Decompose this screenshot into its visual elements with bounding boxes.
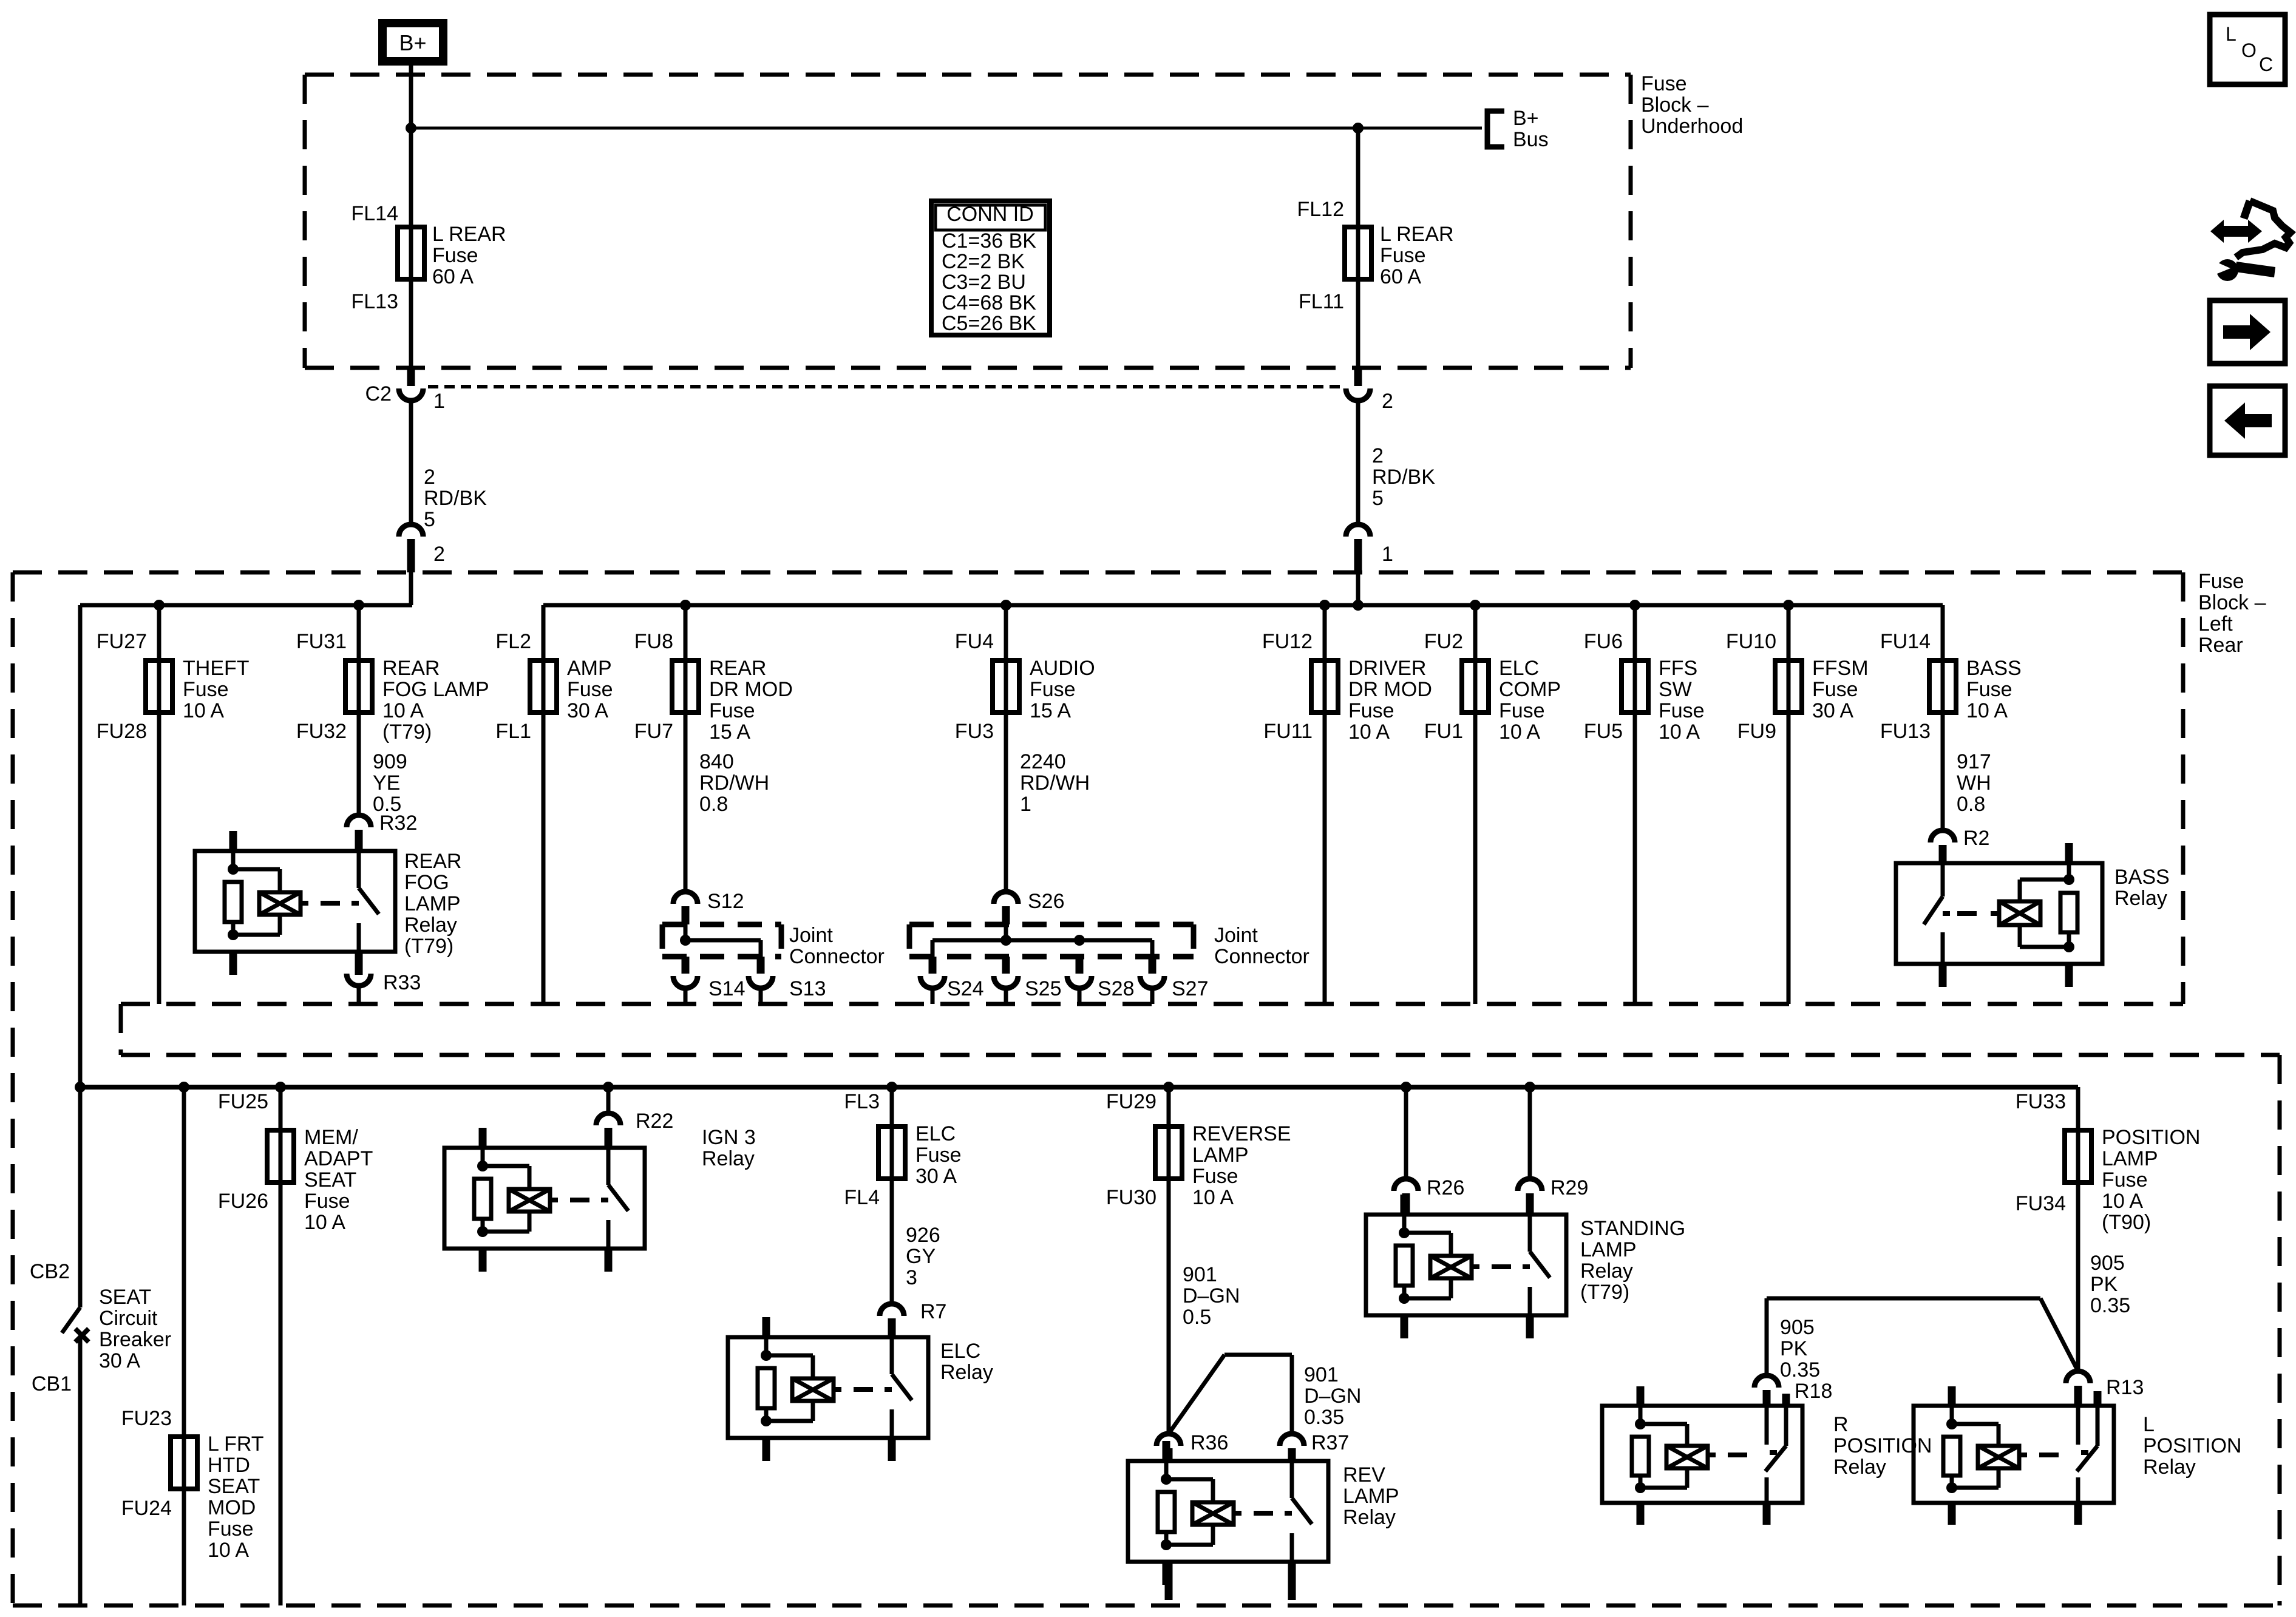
svg-text:FU13: FU13 [1880, 720, 1931, 743]
fuse FL2/FL1 AMP 30A [542, 605, 546, 1004]
svg-text:Connector: Connector [1214, 945, 1309, 968]
svg-text:Fuse: Fuse [183, 678, 229, 701]
svg-text:Relay: Relay [2114, 887, 2167, 910]
svg-text:Bus: Bus [1513, 128, 1549, 151]
svg-text:R13: R13 [2106, 1376, 2144, 1399]
svg-text:30 A: 30 A [1812, 699, 1853, 722]
wire to R29 [1528, 1087, 1532, 1179]
splice S27 [1149, 957, 1156, 974]
junction at x=1002 [603, 1082, 614, 1093]
fuse FL12/FL11 L REAR 60A [1356, 128, 1360, 368]
junction at x=2182 [1319, 600, 1330, 611]
joint connector box 1 [662, 922, 781, 927]
svg-text:POSITION: POSITION [2102, 1126, 2200, 1149]
svg-text:0.35: 0.35 [1304, 1406, 1344, 1429]
svg-text:B+: B+ [399, 30, 426, 55]
svg-text:S28: S28 [1098, 977, 1135, 1000]
svg-text:L: L [2226, 23, 2237, 45]
fuse FU4/FU3 AUDIO 15A [1004, 605, 1008, 892]
svg-text:10 A: 10 A [382, 699, 424, 722]
connector R29 [1518, 1179, 1542, 1191]
svg-text:C4=68 BK: C4=68 BK [942, 291, 1036, 314]
svg-text:Breaker: Breaker [99, 1328, 171, 1351]
svg-text:10 A: 10 A [1966, 699, 2008, 722]
svg-text:R36: R36 [1190, 1431, 1228, 1454]
svg-text:Fuse: Fuse [1641, 72, 1687, 95]
relay ELC Relay [728, 1317, 928, 1461]
svg-text:Relay: Relay [1833, 1456, 1886, 1479]
svg-text:RD/WH: RD/WH [1020, 771, 1090, 795]
svg-text:30 A: 30 A [915, 1165, 957, 1188]
svg-text:D–GN: D–GN [1304, 1385, 1361, 1408]
svg-text:10 A: 10 A [1192, 1186, 1234, 1209]
svg-text:10 A: 10 A [1348, 720, 1390, 744]
svg-text:SEAT: SEAT [304, 1168, 356, 1192]
svg-text:ADAPT: ADAPT [304, 1147, 373, 1170]
fuse FU8/FU7 REAR DR MOD 15A [684, 605, 688, 892]
svg-text:DR MOD: DR MOD [709, 678, 793, 701]
svg-text:FU23: FU23 [121, 1407, 172, 1430]
svg-text:Connector: Connector [789, 945, 885, 968]
svg-text:(T90): (T90) [2102, 1211, 2151, 1234]
svg-text:2240: 2240 [1020, 750, 1066, 773]
svg-text:FL12: FL12 [1297, 198, 1345, 221]
svg-text:ELC: ELC [940, 1340, 980, 1363]
bottom sub-box dashed border [121, 1053, 2280, 1057]
svg-text:FU3: FU3 [955, 720, 994, 743]
svg-text:5: 5 [424, 508, 435, 531]
connector R36 [1156, 1434, 1181, 1446]
svg-text:1: 1 [433, 390, 445, 413]
svg-text:10 A: 10 A [304, 1211, 345, 1234]
svg-text:(T79): (T79) [404, 935, 453, 958]
svg-text:10 A: 10 A [1659, 720, 1700, 744]
svg-text:FU28: FU28 [97, 720, 147, 743]
feed column to lower box [78, 605, 83, 1087]
junction at x=462 [275, 1082, 286, 1093]
svg-text:FL2: FL2 [495, 630, 531, 653]
svg-text:C2: C2 [365, 382, 392, 405]
svg-text:RD/WH: RD/WH [699, 771, 769, 795]
svg-text:FU10: FU10 [1726, 630, 1776, 653]
circuit breaker CB2/CB1 SEAT 30A [78, 1087, 83, 1307]
connector R26 [1394, 1179, 1418, 1191]
svg-text:IGN 3: IGN 3 [702, 1126, 756, 1149]
fuse FU14/FU13 BASS 10A [1941, 605, 1945, 830]
connector C2 pin 1 (right lower) [1346, 524, 1370, 537]
svg-text:FU11: FU11 [1263, 720, 1313, 743]
svg-text:Fuse: Fuse [2102, 1168, 2148, 1192]
svg-text:0.5: 0.5 [1183, 1306, 1211, 1329]
fuse FU27/FU28 THEFT 10A [157, 605, 161, 1004]
svg-text:Fuse: Fuse [1499, 699, 1545, 722]
svg-text:Block –: Block – [2198, 591, 2266, 614]
svg-text:CB2: CB2 [30, 1260, 70, 1283]
relay L POSITION Relay [1914, 1386, 2114, 1525]
svg-text:FU34: FU34 [2016, 1192, 2066, 1215]
svg-text:0.35: 0.35 [2090, 1294, 2130, 1317]
relay REV LAMP Relay [1128, 1441, 1328, 1585]
wire 2 RD/BK 5 (left) [409, 401, 413, 524]
fuse FU33/FU34 POSITION LAMP 10A [2076, 1087, 2080, 1371]
svg-text:Circuit: Circuit [99, 1307, 158, 1330]
wire B+ to FL14 [409, 66, 413, 368]
svg-text:Fuse: Fuse [1030, 678, 1076, 701]
svg-text:R32: R32 [379, 812, 417, 835]
wire to R26 [1404, 1087, 1408, 1179]
svg-text:Rear: Rear [2198, 634, 2243, 657]
svg-text:REAR: REAR [382, 657, 440, 680]
svg-text:L REAR: L REAR [432, 223, 506, 246]
diagnostic pointer icon [2210, 220, 2262, 243]
junction at x=303 [178, 1082, 189, 1093]
svg-text:C2=2 BK: C2=2 BK [942, 250, 1025, 273]
svg-text:Fuse: Fuse [1812, 678, 1858, 701]
bus wire left segment [80, 603, 412, 608]
svg-text:RD/BK: RD/BK [424, 487, 487, 510]
svg-text:SW: SW [1659, 678, 1692, 701]
svg-text:FU27: FU27 [97, 630, 147, 653]
wire 2 RD/BK 5 (right) [1356, 401, 1360, 524]
wire 905 PK 0.35 branch to R18 [1767, 1297, 2040, 1301]
svg-text:C1=36 BK: C1=36 BK [942, 229, 1036, 253]
svg-text:R: R [1833, 1413, 1849, 1436]
svg-text:REV: REV [1343, 1463, 1385, 1486]
svg-text:PK: PK [2090, 1273, 2118, 1296]
relay REAR FOG LAMP Relay [195, 831, 395, 975]
splice S14 [682, 957, 690, 974]
svg-text:Fuse: Fuse [1966, 678, 2012, 701]
svg-text:Relay: Relay [940, 1361, 993, 1384]
svg-text:REVERSE: REVERSE [1192, 1122, 1291, 1145]
svg-text:Joint: Joint [1214, 924, 1258, 947]
wire to R22 [606, 1087, 611, 1113]
junction at x=2520 [1524, 1082, 1535, 1093]
svg-text:C3=2 BU: C3=2 BU [942, 271, 1026, 294]
connector R13 [2066, 1371, 2090, 1383]
svg-text:60 A: 60 A [1380, 265, 1421, 288]
svg-text:S24: S24 [947, 977, 984, 1000]
junction at x=1925 [1163, 1082, 1174, 1093]
svg-text:ELC: ELC [915, 1122, 956, 1145]
svg-text:FL14: FL14 [352, 202, 399, 225]
svg-text:FU33: FU33 [2016, 1090, 2066, 1113]
fuse FL3/FL4 ELC 30A [890, 1087, 894, 1304]
svg-text:GY: GY [906, 1245, 936, 1268]
svg-text:Relay: Relay [1580, 1259, 1633, 1283]
fuse FU10/FU9 FFSM 30A [1787, 605, 1791, 1004]
svg-text:Fuse: Fuse [2198, 570, 2244, 593]
dotted connector line [428, 385, 1342, 388]
junction at x=1129 [680, 600, 691, 611]
junction at x=2237 [1353, 600, 1364, 611]
connector C2 pin 2 (left lower) [399, 524, 423, 537]
svg-text:STANDING: STANDING [1580, 1217, 1685, 1240]
splice S24 [929, 957, 937, 974]
svg-text:Fuse: Fuse [208, 1517, 254, 1541]
svg-text:901: 901 [1183, 1263, 1217, 1286]
svg-text:905: 905 [1780, 1316, 1815, 1339]
svg-text:Fuse: Fuse [1659, 699, 1705, 722]
joint connector bus 1 [685, 938, 761, 943]
svg-text:Joint: Joint [789, 924, 833, 947]
svg-text:MOD: MOD [208, 1496, 256, 1519]
svg-text:C5=26 BK: C5=26 BK [942, 312, 1036, 335]
connector R7 [880, 1304, 904, 1316]
B+ Bus terminal bracket [1487, 111, 1504, 147]
svg-text:FU32: FU32 [296, 720, 347, 743]
svg-text:YE: YE [373, 771, 400, 795]
svg-text:S26: S26 [1028, 890, 1065, 913]
svg-text:Fuse: Fuse [709, 699, 755, 722]
connector C2 pin 2 (right) [1354, 368, 1362, 386]
svg-text:Relay: Relay [2143, 1456, 2196, 1479]
svg-text:FU4: FU4 [955, 630, 994, 653]
svg-text:926: 926 [906, 1224, 940, 1247]
svg-text:S25: S25 [1025, 977, 1062, 1000]
svg-text:FU7: FU7 [634, 720, 673, 743]
svg-text:Relay: Relay [404, 914, 457, 937]
svg-text:1: 1 [1020, 793, 1031, 816]
svg-text:15 A: 15 A [709, 720, 750, 744]
svg-text:Left: Left [2198, 612, 2233, 636]
svg-text:THEFT: THEFT [183, 657, 250, 680]
svg-text:S13: S13 [789, 977, 826, 1000]
svg-text:2: 2 [1372, 444, 1384, 467]
splice S25 [1002, 957, 1010, 974]
arrow left icon box [2210, 386, 2285, 455]
LOC reference box icon [2210, 15, 2285, 84]
svg-text:10 A: 10 A [208, 1539, 249, 1562]
svg-text:FL13: FL13 [352, 290, 399, 313]
junction at x=2316 [1401, 1082, 1411, 1093]
svg-text:POSITION: POSITION [2143, 1434, 2241, 1457]
svg-text:10 A: 10 A [2102, 1190, 2143, 1213]
svg-text:3: 3 [906, 1266, 917, 1289]
svg-text:CB1: CB1 [32, 1372, 72, 1395]
svg-text:R37: R37 [1311, 1431, 1349, 1454]
junction FU27 [154, 600, 165, 611]
connector R2 [1931, 830, 1955, 842]
svg-text:0.35: 0.35 [1780, 1358, 1820, 1381]
svg-text:R29: R29 [1550, 1176, 1588, 1199]
junction at B+ drop [406, 123, 416, 134]
svg-text:POSITION: POSITION [1833, 1434, 1932, 1457]
svg-text:AMP: AMP [567, 657, 612, 680]
svg-text:FU25: FU25 [218, 1090, 268, 1113]
svg-text:LAMP: LAMP [404, 892, 461, 915]
fuse FU2/FU1 ELC COMP 10A [1473, 605, 1478, 1004]
svg-text:FU9: FU9 [1737, 720, 1776, 743]
relay R POSITION Relay [1602, 1386, 1802, 1525]
svg-text:2: 2 [433, 543, 445, 566]
svg-text:1: 1 [1382, 543, 1393, 566]
svg-text:901: 901 [1304, 1363, 1339, 1386]
svg-text:FL3: FL3 [844, 1090, 880, 1113]
svg-text:MEM/: MEM/ [304, 1126, 358, 1149]
svg-text:LAMP: LAMP [2102, 1147, 2158, 1170]
svg-text:DRIVER: DRIVER [1348, 657, 1426, 680]
svg-text:DR MOD: DR MOD [1348, 678, 1432, 701]
svg-text:L REAR: L REAR [1380, 223, 1454, 246]
svg-text:RD/BK: RD/BK [1372, 466, 1435, 489]
junction at x=2693 [1629, 600, 1640, 611]
svg-text:SEAT: SEAT [208, 1475, 260, 1498]
svg-text:FU24: FU24 [121, 1497, 172, 1520]
connector R33 [355, 952, 363, 965]
svg-text:Fuse: Fuse [915, 1144, 962, 1167]
svg-text:FU30: FU30 [1106, 1186, 1156, 1209]
svg-text:30 A: 30 A [567, 699, 608, 722]
relay STANDING LAMP Relay [1366, 1195, 1566, 1338]
svg-text:15 A: 15 A [1030, 699, 1071, 722]
svg-text:LAMP: LAMP [1580, 1238, 1637, 1261]
svg-text:FU8: FU8 [634, 630, 673, 653]
svg-text:BASS: BASS [1966, 657, 2022, 680]
junction at x=2946 [1783, 600, 1794, 611]
svg-text:Underhood: Underhood [1641, 115, 1743, 138]
joint connector bus 2 [932, 938, 1152, 943]
svg-text:HTD: HTD [208, 1454, 250, 1477]
svg-text:FFS: FFS [1659, 657, 1697, 680]
svg-text:Fuse: Fuse [1380, 244, 1426, 267]
svg-text:WH: WH [1957, 771, 1991, 795]
svg-text:BASS: BASS [2114, 866, 2170, 889]
svg-text:LAMP: LAMP [1192, 1144, 1249, 1167]
svg-text:ELC: ELC [1499, 657, 1539, 680]
junction at FL12 drop [1353, 123, 1364, 134]
svg-text:Fuse: Fuse [567, 678, 613, 701]
svg-text:(T79): (T79) [1580, 1281, 1629, 1304]
svg-text:L FRT: L FRT [208, 1432, 264, 1456]
svg-text:C: C [2259, 53, 2273, 75]
svg-text:5: 5 [1372, 487, 1384, 510]
svg-text:Relay: Relay [1343, 1506, 1396, 1529]
fuse FU6/FU5 FFS SW 10A [1633, 605, 1637, 1004]
svg-text:FU1: FU1 [1424, 720, 1463, 743]
svg-text:2: 2 [424, 466, 435, 489]
svg-text:FFSM: FFSM [1812, 657, 1869, 680]
svg-text:FU5: FU5 [1584, 720, 1623, 743]
svg-text:30 A: 30 A [99, 1349, 140, 1372]
svg-text:FU6: FU6 [1584, 630, 1623, 653]
splice S12 [673, 892, 698, 904]
svg-text:S14: S14 [708, 977, 746, 1000]
svg-text:FL4: FL4 [844, 1186, 880, 1209]
splice S28 [1076, 957, 1084, 974]
junction feed [75, 1082, 86, 1093]
Fuse Block - Underhood dashed box [305, 73, 1631, 77]
svg-text:S27: S27 [1172, 977, 1209, 1000]
svg-text:B+: B+ [1513, 107, 1539, 130]
relay BASS Relay [1896, 843, 2102, 987]
svg-text:Block –: Block – [1641, 93, 1709, 117]
connector R32 [347, 815, 371, 827]
junction at x=1657 [1000, 600, 1011, 611]
connector R18 [1754, 1375, 1779, 1388]
svg-text:2: 2 [1382, 390, 1393, 413]
junction at x=1469 [886, 1082, 897, 1093]
svg-text:FU26: FU26 [218, 1190, 268, 1213]
connector R37 [1280, 1434, 1304, 1446]
svg-text:0.8: 0.8 [699, 793, 728, 816]
svg-text:FOG LAMP: FOG LAMP [382, 678, 489, 701]
svg-text:10 A: 10 A [183, 699, 224, 722]
svg-text:R22: R22 [636, 1110, 673, 1133]
svg-text:FL11: FL11 [1299, 290, 1344, 313]
fuse FU23/FU24 L FRT HTD SEAT MOD 10A [182, 1087, 186, 1605]
connector C2 pin 1 (left) [407, 368, 415, 386]
fuse FU31/FU32 REAR FOG LAMP 10A [357, 605, 361, 815]
junction FU31 [353, 600, 364, 611]
svg-text:REAR: REAR [709, 657, 766, 680]
svg-text:S12: S12 [707, 890, 744, 913]
svg-text:905: 905 [2090, 1252, 2125, 1275]
svg-text:(T79): (T79) [382, 720, 432, 744]
svg-text:R26: R26 [1427, 1176, 1464, 1199]
svg-text:10 A: 10 A [1499, 720, 1540, 744]
Fuse Block - Left Rear dashed box [11, 572, 15, 1605]
svg-text:CONN ID: CONN ID [946, 203, 1034, 226]
wire 901 D-GN 0.35 branch [1169, 1355, 1224, 1434]
junction at x=2430 [1470, 600, 1481, 611]
svg-text:LAMP: LAMP [1343, 1485, 1399, 1508]
svg-text:FU14: FU14 [1880, 630, 1931, 653]
svg-text:L: L [2143, 1413, 2155, 1436]
joint connector box 2 [909, 922, 1194, 927]
svg-text:R2: R2 [1963, 827, 1989, 850]
svg-text:Fuse: Fuse [1348, 699, 1394, 722]
B+ bus wire [411, 127, 1482, 130]
fuse FU25/FU26 MEM/ADAPT SEAT 10A [279, 1087, 283, 1605]
svg-text:SEAT: SEAT [99, 1286, 151, 1309]
svg-text:FU2: FU2 [1424, 630, 1463, 653]
bottom bus wire [80, 1085, 2078, 1090]
connector R22 [596, 1113, 620, 1125]
bus wire right segment [543, 603, 1943, 608]
svg-text:FU29: FU29 [1106, 1090, 1156, 1113]
svg-text:FU31: FU31 [296, 630, 347, 653]
svg-text:Fuse: Fuse [304, 1190, 350, 1213]
svg-text:AUDIO: AUDIO [1030, 657, 1095, 680]
relay IGN 3 Relay [444, 1128, 645, 1272]
svg-text:FU12: FU12 [1262, 630, 1313, 653]
svg-text:Fuse: Fuse [432, 244, 478, 267]
B+ power symbol [378, 19, 447, 66]
fuse FU12/FU11 DRIVER DR MOD 10A [1323, 605, 1327, 1004]
svg-text:60 A: 60 A [432, 265, 474, 288]
svg-text:Fuse: Fuse [1192, 1165, 1238, 1188]
svg-text:917: 917 [1957, 750, 1991, 773]
splice S13 [757, 957, 765, 974]
svg-text:COMP: COMP [1499, 678, 1561, 701]
svg-text:REAR: REAR [404, 850, 461, 873]
svg-text:Relay: Relay [702, 1147, 755, 1170]
svg-text:D–GN: D–GN [1183, 1284, 1240, 1307]
svg-text:909: 909 [373, 750, 407, 773]
svg-text:840: 840 [699, 750, 734, 773]
svg-text:PK: PK [1780, 1337, 1808, 1360]
svg-text:R7: R7 [920, 1300, 946, 1323]
splice S26 [994, 892, 1018, 904]
arrow right icon box [2210, 300, 2285, 364]
fuse FU29/FU30 REVERSE LAMP 10A [1167, 1087, 1171, 1434]
CONN ID table [931, 201, 1050, 335]
svg-text:FL1: FL1 [495, 720, 531, 743]
svg-text:0.8: 0.8 [1957, 793, 1985, 816]
svg-text:O: O [2241, 39, 2257, 61]
svg-text:R33: R33 [383, 971, 421, 994]
